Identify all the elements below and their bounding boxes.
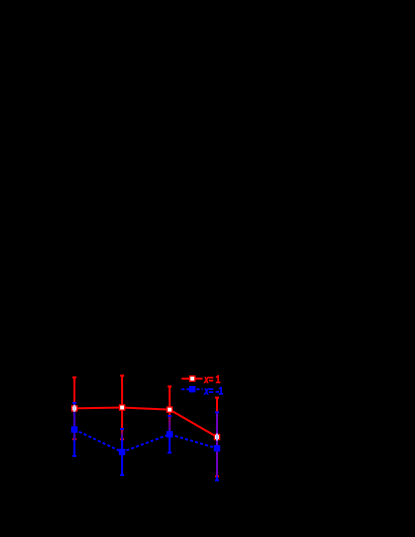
legend blue marker: [190, 387, 195, 392]
lavender crossing over red marker M1: [73, 405, 75, 412]
blue error bar tail T3: [169, 433, 171, 453]
overlap bar O4 upper: [216, 412, 218, 433]
legend red label "x= 1": [203, 374, 221, 387]
blue marker N4: [214, 446, 219, 451]
svg-text:=: =: [209, 385, 214, 398]
blue marker N3: [167, 432, 172, 437]
red error bar E1 (x=74.4): [72, 377, 76, 439]
blue caps C2: [120, 429, 124, 475]
red error bar E4 (x=217.0): [215, 398, 219, 477]
red error bar E3 (x=169.6): [168, 386, 172, 432]
legend blue sample line: [182, 388, 203, 390]
blue dashed series line: [74, 430, 217, 453]
red marker M4: [214, 434, 219, 439]
legend red sample line: [182, 378, 203, 380]
legend red marker: [190, 376, 195, 381]
blue error bar tail T2: [121, 439, 123, 475]
red error bar E2 (x=122.1): [120, 376, 124, 440]
overlap bar O2 (gradient): [121, 429, 123, 439]
lavender crossing over red marker M4: [216, 434, 218, 441]
legend blue label "x= -1": [203, 385, 223, 398]
svg-text:1: 1: [218, 386, 223, 398]
overlap bar O3 (gradient): [169, 416, 171, 433]
red marker M1: [72, 406, 77, 411]
overlap bar O1 upper: [73, 403, 75, 405]
red series line: [74, 408, 217, 438]
blue marker N1: [72, 427, 77, 432]
blue error bar tail T4: [216, 476, 218, 480]
red marker M3: [167, 407, 172, 412]
red marker M2: [120, 405, 125, 410]
blue caps C3: [168, 416, 172, 453]
blue caps C1: [72, 403, 76, 456]
blue marker N2: [119, 449, 124, 454]
blue error bar tail T1: [73, 439, 75, 456]
overlap bar O4 lower: [216, 441, 218, 477]
blue caps C4: [215, 412, 219, 480]
overlap bar O1 lower: [73, 412, 75, 439]
